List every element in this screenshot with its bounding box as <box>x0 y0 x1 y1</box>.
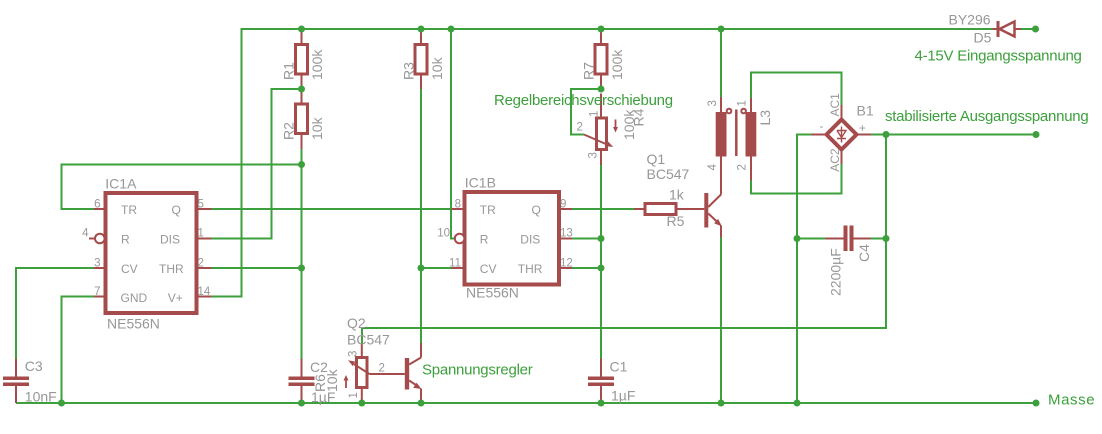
wire bridge minus to ground rail <box>797 135 812 404</box>
wire V+ top rail from IC1A pin14 up and across to D5 <box>212 29 993 297</box>
svg-text:10k: 10k <box>429 56 445 80</box>
wire node x301 vertical R2 bottom to C2 <box>301 149 303 359</box>
svg-text:4: 4 <box>707 164 719 171</box>
svg-text:3: 3 <box>588 152 600 158</box>
svg-text:R: R <box>121 233 130 247</box>
junction THR node x301 <box>298 265 305 272</box>
wire IC1A Q pin5 to IC1B TR pin8 <box>212 208 452 210</box>
wire plus rail down and across to R6 pin3 <box>362 135 886 344</box>
svg-text:3: 3 <box>348 351 360 357</box>
svg-text:IC1B: IC1B <box>465 175 496 191</box>
junction CV B node x421 <box>418 265 425 272</box>
svg-text:1: 1 <box>737 100 749 106</box>
wire L3 pin2 to bridge AC2 <box>751 164 842 194</box>
svg-text:3: 3 <box>94 258 100 270</box>
label Spannungsregler <box>422 362 533 379</box>
label 4-15V Eingangsspannung <box>915 48 1082 65</box>
svg-text:C2: C2 <box>310 359 328 375</box>
node Masse terminal <box>1033 400 1040 407</box>
svg-text:1: 1 <box>589 111 601 117</box>
wire Masse bottom rail <box>16 402 1036 404</box>
svg-text:NE556N: NE556N <box>107 316 160 332</box>
label stabilisierte Ausgangsspannung <box>885 108 1088 125</box>
junction V+ rail L3 <box>718 26 725 33</box>
svg-text:C1: C1 <box>610 359 628 375</box>
svg-text:1: 1 <box>348 392 360 398</box>
junction Masse Q1 <box>718 400 725 407</box>
svg-text:2: 2 <box>737 164 749 170</box>
svg-text:6: 6 <box>94 199 100 211</box>
svg-text:Masse: Masse <box>1048 392 1095 409</box>
resistor R3 10k <box>401 29 446 89</box>
svg-text:R1: R1 <box>281 62 297 80</box>
op-amp timer IC1A NE556N <box>82 176 211 332</box>
wire Q1 emitter to Masse <box>720 238 722 404</box>
wire IC1B R pin10 to V+ rail <box>451 29 455 239</box>
wire R3 bottom to Q2 collector <box>420 89 422 343</box>
op-amp timer IC1B NE556N <box>437 175 573 301</box>
wire IC1A CV pin3 to C3 <box>16 268 94 359</box>
svg-text:10k: 10k <box>309 116 325 140</box>
svg-text:D5: D5 <box>974 29 992 45</box>
svg-text:9: 9 <box>560 199 566 211</box>
svg-text:THR: THR <box>518 262 543 276</box>
junction R1 R2 node <box>298 86 305 93</box>
svg-text:R2: R2 <box>281 122 297 140</box>
svg-text:4: 4 <box>82 228 89 240</box>
junction plus rail C4 <box>883 235 890 242</box>
svg-text:2: 2 <box>379 363 385 375</box>
svg-text:14: 14 <box>198 286 211 298</box>
wire C4 left <box>797 238 826 240</box>
svg-text:Q1: Q1 <box>647 151 666 167</box>
node input terminal <box>1032 26 1039 33</box>
svg-text:R5: R5 <box>667 213 685 229</box>
svg-text:R: R <box>480 233 489 247</box>
wire IC1B CV pin11 to R3/Q2 node <box>421 267 452 269</box>
potentiometer R6 10k <box>312 344 405 404</box>
svg-text:AC2: AC2 <box>828 148 842 172</box>
svg-text:Spannungsregler: Spannungsregler <box>422 362 533 379</box>
svg-text:IC1A: IC1A <box>105 176 137 192</box>
svg-text:B1: B1 <box>857 103 874 119</box>
wire D5 anode to input terminal <box>1021 28 1036 30</box>
junction DIS B node x601 <box>598 235 605 242</box>
svg-text:12: 12 <box>560 258 573 270</box>
wire IC1B Q pin9 to R5 <box>572 208 634 210</box>
svg-text:100k: 100k <box>609 49 625 80</box>
resistor R5 1k <box>634 187 691 230</box>
label Masse <box>1048 392 1095 409</box>
resistor R2 10k <box>281 89 326 149</box>
junction Masse R6 <box>358 400 365 407</box>
svg-text:TR: TR <box>480 203 496 217</box>
junction Masse Q2 <box>418 400 425 407</box>
svg-text:11: 11 <box>449 258 461 270</box>
svg-text:CV: CV <box>121 262 138 276</box>
svg-text:5: 5 <box>198 199 204 211</box>
wire IC1A DIS pin1 to R1/R2 junction <box>212 89 302 239</box>
svg-text:TR: TR <box>121 203 137 217</box>
svg-text:C3: C3 <box>25 358 43 374</box>
svg-text:stabilisierte Ausgangsspannung: stabilisierte Ausgangsspannung <box>885 108 1088 125</box>
junction Masse GND IC1A <box>58 400 65 407</box>
wire R4 wiper loop <box>571 89 601 135</box>
svg-text:L3: L3 <box>757 110 773 126</box>
svg-text:DIS: DIS <box>160 233 180 247</box>
svg-text:13: 13 <box>560 228 573 240</box>
capacitor C3 10nF <box>3 358 57 405</box>
svg-text:NE556N: NE556N <box>466 285 519 301</box>
svg-text:CV: CV <box>480 262 497 276</box>
junction V+ rail R7 <box>598 26 605 33</box>
svg-text:1µF: 1µF <box>611 388 635 404</box>
svg-text:1: 1 <box>198 228 204 240</box>
wire IC1A GND pin7 to Masse <box>62 297 95 404</box>
junction bridge plus output <box>883 131 890 138</box>
svg-text:10: 10 <box>437 228 450 240</box>
svg-text:100k: 100k <box>309 49 325 80</box>
svg-text:BY296: BY296 <box>949 12 991 28</box>
junction R7 R4 node <box>598 86 605 93</box>
svg-text:Regelbereichsverschiebung: Regelbereichsverschiebung <box>494 92 673 109</box>
wire R4 pin3 down to C1 <box>600 165 602 359</box>
wire L3 pin1 to bridge AC1 <box>751 73 842 106</box>
wire IC1A THR pin2 to node x301 <box>212 267 302 269</box>
svg-text:+: + <box>859 123 866 135</box>
diode D5 BY296 <box>949 12 1022 46</box>
svg-text:-: - <box>820 121 824 133</box>
junction V+ rail R3 <box>418 26 425 33</box>
svg-text:GND: GND <box>121 291 148 305</box>
svg-text:2200µF: 2200µF <box>828 248 844 296</box>
capacitor C1 1uF <box>588 359 635 404</box>
junction Masse C2 <box>298 400 305 407</box>
junction R2 bottom TR node <box>298 161 305 168</box>
wire C4 right <box>871 238 887 240</box>
svg-text:C4: C4 <box>856 244 872 262</box>
bridge rectifier B1 <box>812 93 874 172</box>
svg-text:R3: R3 <box>401 62 417 80</box>
capacitor C2 1uF <box>289 359 336 406</box>
junction Masse minus rail <box>794 400 801 407</box>
svg-text:4-15V Eingangsspannung: 4-15V Eingangsspannung <box>915 48 1082 65</box>
svg-text:Q: Q <box>172 203 181 217</box>
svg-text:3: 3 <box>707 100 719 106</box>
resistor R1 100k <box>281 29 326 89</box>
svg-text:2: 2 <box>198 258 204 270</box>
svg-text:Q2: Q2 <box>347 315 366 331</box>
wire V+ rail to L3 pin3 <box>720 29 722 97</box>
svg-text:AC1: AC1 <box>828 93 842 117</box>
transistor Q2 BC547 <box>347 315 422 403</box>
svg-text:1k: 1k <box>669 187 685 203</box>
junction Masse C1 <box>598 400 605 407</box>
resistor R7 100k <box>581 29 626 89</box>
svg-text:10nF: 10nF <box>25 389 57 405</box>
svg-text:V+: V+ <box>168 291 183 305</box>
svg-text:THR: THR <box>159 262 184 276</box>
svg-text:2: 2 <box>577 122 583 134</box>
wire IC1A TR pin6 to R1/R2 node <box>62 165 302 210</box>
wire bridge plus output <box>871 134 1036 136</box>
junction V+ rail pin10 drop <box>448 26 455 33</box>
transformer L3 <box>707 97 773 181</box>
label Regelbereichsverschiebung <box>494 92 673 109</box>
junction V+ rail R1 <box>298 26 305 33</box>
wire IC1B THR pin12 to node x601 <box>572 267 601 269</box>
svg-text:R4: R4 <box>631 108 647 126</box>
svg-text:7: 7 <box>94 286 100 298</box>
svg-text:DIS: DIS <box>520 233 540 247</box>
svg-text:8: 8 <box>455 199 461 211</box>
potentiometer R4 100k <box>577 94 647 166</box>
transistor Q1 BC547 <box>647 151 723 238</box>
junction THR B node x601 <box>598 265 605 272</box>
svg-text:BC547: BC547 <box>347 332 390 348</box>
junction minus rail C4 <box>794 235 801 242</box>
svg-text:Q: Q <box>532 203 541 217</box>
node output terminal <box>1033 131 1040 138</box>
svg-text:1µF: 1µF <box>311 389 335 405</box>
svg-text:BC547: BC547 <box>647 166 690 182</box>
svg-text:R7: R7 <box>581 62 597 80</box>
capacitor C4 2200uF <box>826 226 873 297</box>
wire IC1B DIS pin13 to node x601 <box>572 238 601 240</box>
